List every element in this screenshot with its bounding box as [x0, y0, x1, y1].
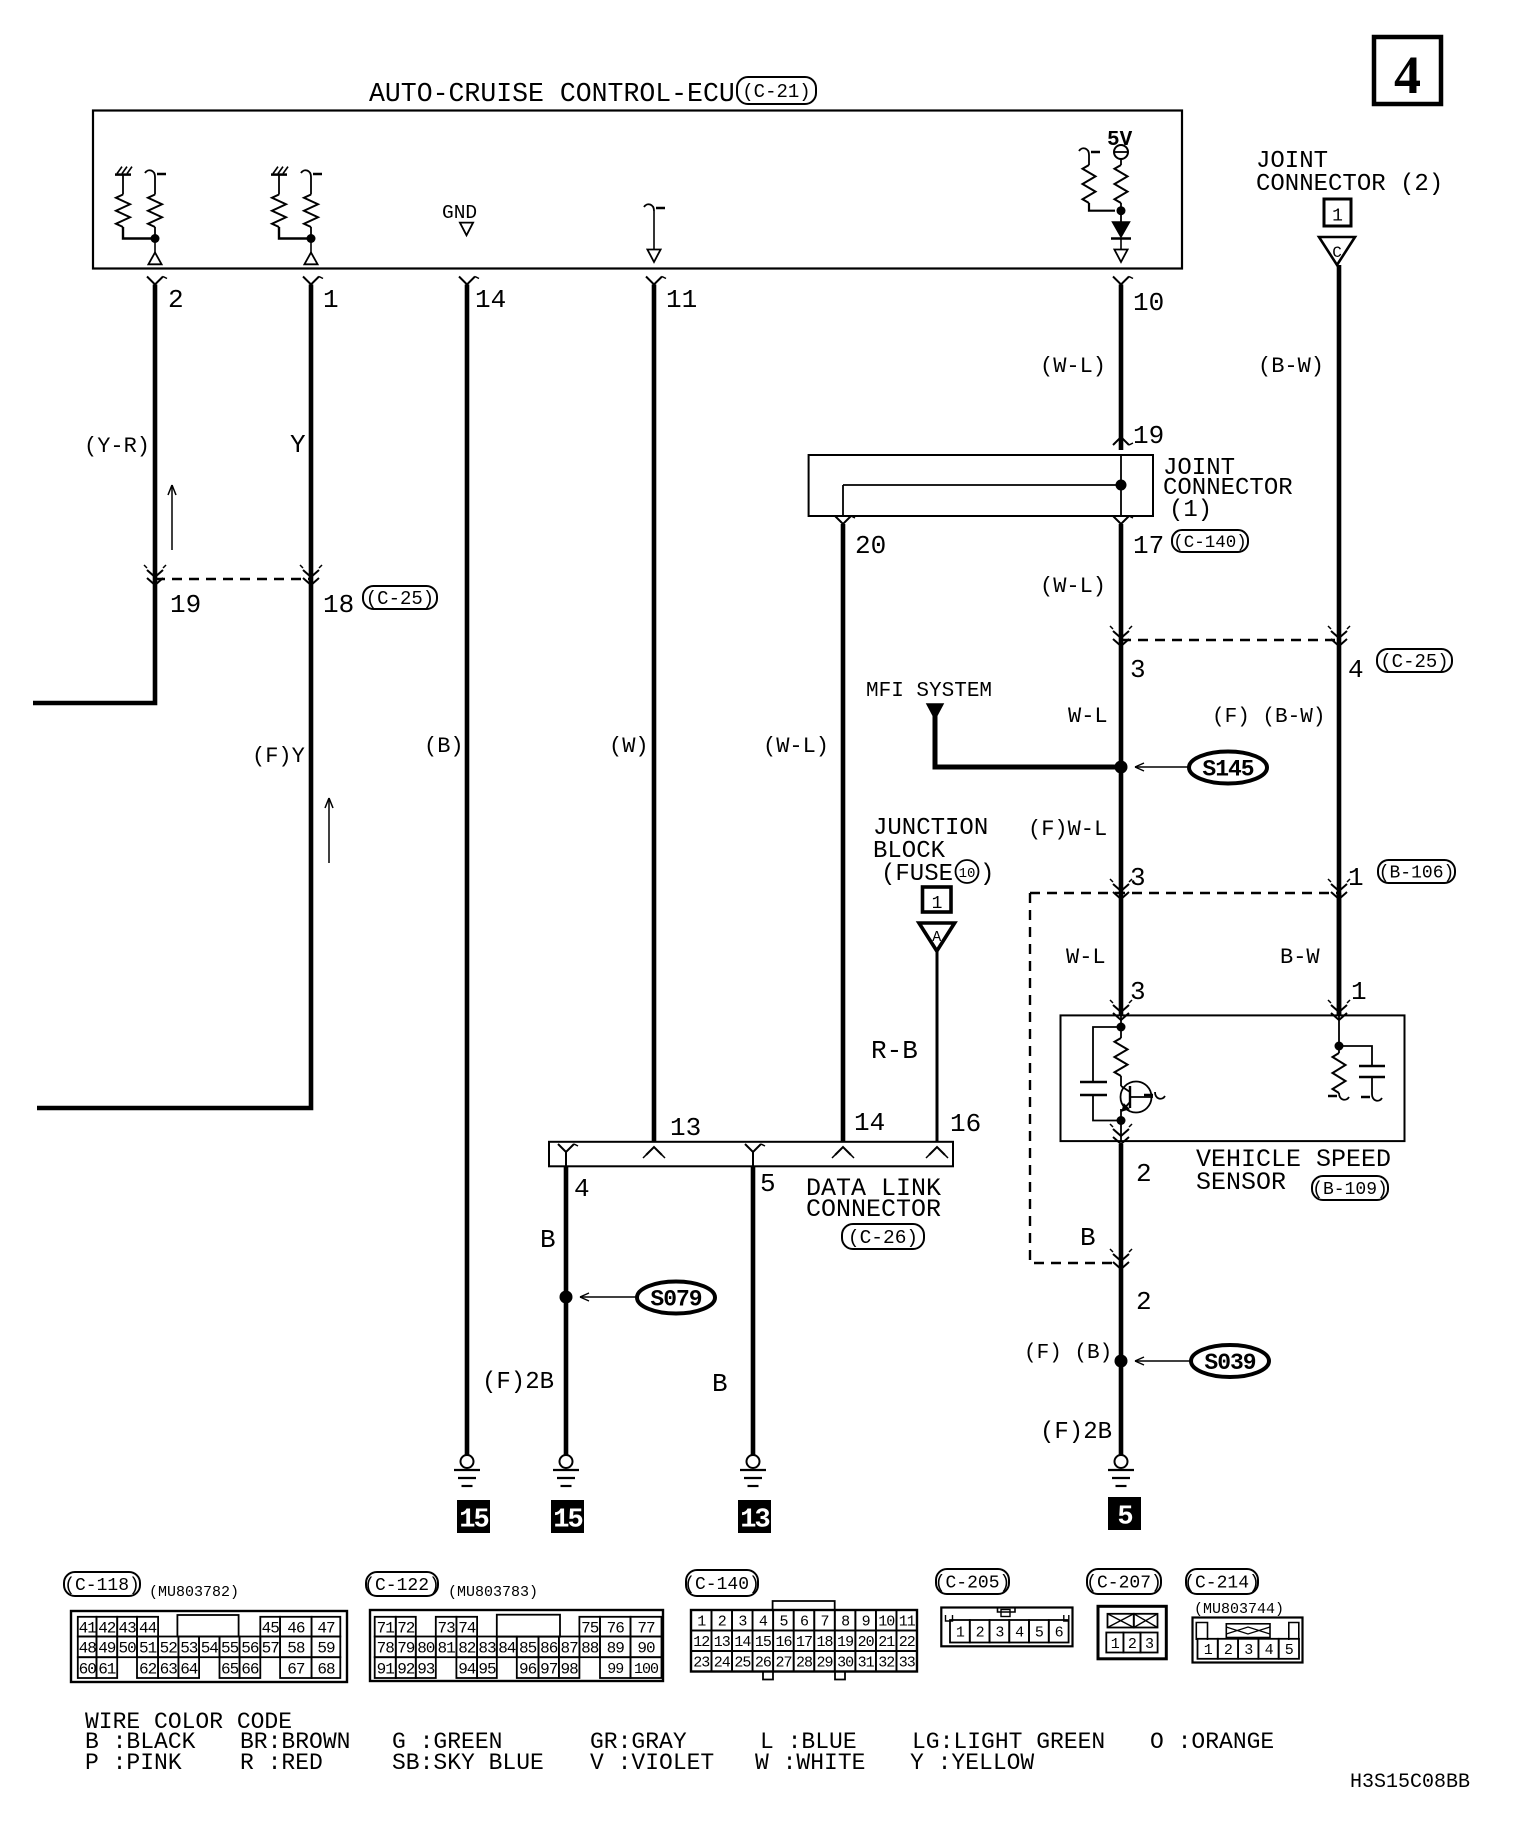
svg-text:5: 5 [1117, 1503, 1132, 1533]
svg-text:67: 67 [287, 1660, 305, 1678]
ground page ref 15 [457, 1500, 490, 1533]
resistor internal on pin x=155 [154, 177, 156, 195]
svg-text:1: 1 [1204, 1642, 1213, 1659]
svg-text:(C-207): (C-207) [1086, 1574, 1162, 1594]
ground symbol DLC pin 4 [560, 1455, 573, 1468]
pin 1 fork below ECU [303, 277, 319, 285]
svg-text:(MU803782): (MU803782) [149, 1584, 239, 1601]
svg-text:14: 14 [475, 285, 506, 315]
resistor internal left of pin (x=279) [278, 175, 280, 195]
continuation hook left resistor pin 10 [1079, 148, 1089, 155]
svg-text:21: 21 [878, 1634, 895, 1651]
svg-text:4: 4 [574, 1174, 590, 1204]
svg-text:(W-L): (W-L) [1040, 574, 1106, 599]
svg-text:18: 18 [816, 1634, 833, 1651]
junction dot VSS bottom [1117, 1116, 1126, 1125]
wire 17 (W-L) continues down [1119, 524, 1124, 1015]
svg-text:30: 30 [837, 1655, 854, 1672]
svg-text:(F)2B: (F)2B [1040, 1419, 1112, 1446]
svg-text:(F)W-L: (F)W-L [1028, 817, 1107, 842]
svg-text:(C-25): (C-25) [1380, 651, 1448, 673]
continuation hook at top of resistor x=155 [145, 170, 155, 177]
svg-text:63: 63 [160, 1660, 178, 1678]
svg-text:49: 49 [98, 1640, 116, 1658]
connector table C-207 [1098, 1606, 1166, 1659]
pin 10 fork below ECU [1113, 277, 1129, 285]
ECU box C-21 outline [93, 111, 1182, 269]
ground symbol DLC pin 5 [747, 1455, 760, 1468]
connector table C-205 [941, 1608, 1072, 1647]
svg-text:27: 27 [775, 1655, 791, 1672]
inline connector marks B-106 pin 2 on VSS wire [1113, 1254, 1129, 1261]
svg-text:77: 77 [637, 1619, 655, 1637]
continuation hook at top of resistor x=311 [301, 170, 311, 177]
male pin 14 mark in data link connector [835, 1147, 851, 1155]
svg-text:93: 93 [417, 1660, 435, 1678]
svg-text:4: 4 [759, 1614, 768, 1631]
svg-text:48: 48 [79, 1640, 97, 1658]
svg-text:(W): (W) [609, 734, 649, 759]
junction dot [307, 234, 316, 243]
connector label B-109 [1312, 1176, 1388, 1200]
svg-text:(F)2B: (F)2B [482, 1369, 554, 1396]
svg-text:75: 75 [581, 1619, 599, 1637]
svg-text:10: 10 [878, 1614, 895, 1631]
svg-text:46: 46 [287, 1619, 305, 1637]
fork at joint connector pin 19 [1113, 437, 1129, 445]
svg-text:W :WHITE: W :WHITE [755, 1750, 865, 1776]
svg-text:H3S15C08BB: H3S15C08BB [1350, 1771, 1470, 1794]
ECU internal lead at pin 11 [644, 204, 654, 211]
VEHICLE SPEED SENSOR box B-109 [1061, 1015, 1405, 1141]
svg-text:1: 1 [1111, 1636, 1120, 1653]
svg-text:V :VIOLET: V :VIOLET [590, 1750, 714, 1776]
svg-text:20: 20 [858, 1634, 875, 1651]
svg-text:32: 32 [878, 1655, 894, 1672]
svg-text:13: 13 [740, 1506, 769, 1536]
wire (B-W) from joint connector 2 [1337, 265, 1342, 1015]
male pin 13 mark in data link connector [646, 1147, 662, 1155]
svg-text:3: 3 [1130, 977, 1146, 1007]
connector label C-122 [366, 1572, 438, 1596]
joint connector 2 triangle C [1319, 237, 1355, 265]
svg-text:100: 100 [634, 1661, 659, 1678]
svg-text:(B-109): (B-109) [1312, 1180, 1388, 1200]
svg-text:18: 18 [323, 590, 354, 620]
svg-text:90: 90 [637, 1640, 655, 1658]
resistor R1 in VSS [1115, 1038, 1128, 1076]
ground symbol wire 14 [461, 1455, 474, 1468]
svg-text:80: 80 [417, 1640, 435, 1658]
male pin 16 mark in data link connector [929, 1147, 945, 1155]
resistor internal on pin x=311 [310, 177, 312, 195]
svg-text:CONNECTOR: CONNECTOR [806, 1195, 941, 1224]
svg-text:76: 76 [607, 1619, 625, 1637]
svg-text:94: 94 [458, 1660, 476, 1678]
wire pin2 (Y-R) down then left [33, 285, 155, 704]
inline connector marks at VSS pin 3 [1113, 1005, 1129, 1012]
svg-text:33: 33 [899, 1655, 916, 1672]
svg-text:19: 19 [837, 1634, 853, 1651]
svg-text:6: 6 [800, 1614, 809, 1631]
5V supply symbol [1114, 145, 1128, 159]
splice S039 junction dot [1115, 1355, 1128, 1368]
wire pin10 (W-L) to joint connector 1 [1119, 285, 1124, 451]
junction block terminal box 1 [923, 887, 952, 912]
svg-text:2: 2 [1128, 1636, 1136, 1653]
svg-text:AUTO-CRUISE CONTROL-ECU: AUTO-CRUISE CONTROL-ECU [369, 79, 735, 109]
DATA LINK CONNECTOR box C-26 [549, 1142, 953, 1167]
svg-text:66: 66 [241, 1660, 259, 1678]
inline connector marks at VSS pin 1 [1331, 1005, 1347, 1012]
svg-text:MFI SYSTEM: MFI SYSTEM [866, 680, 992, 703]
svg-text:11: 11 [899, 1614, 916, 1631]
svg-text:(F) (B-W): (F) (B-W) [1212, 706, 1325, 729]
svg-text:17: 17 [1133, 531, 1164, 561]
svg-text:(MU803783): (MU803783) [448, 1584, 538, 1601]
svg-text:(F)Y: (F)Y [252, 744, 305, 769]
svg-text:4: 4 [1394, 45, 1421, 105]
svg-text:16: 16 [950, 1109, 981, 1139]
svg-text:2: 2 [976, 1625, 984, 1642]
junction dot in joint connector 1 [1116, 480, 1127, 491]
MFI SYSTEM feed triangle [927, 704, 943, 719]
svg-text:15: 15 [459, 1506, 488, 1536]
junction dot VSS right [1335, 1042, 1344, 1051]
svg-text:3: 3 [1244, 1642, 1253, 1659]
svg-text:(C-140): (C-140) [1173, 533, 1247, 553]
svg-text:1: 1 [1332, 207, 1343, 227]
svg-text:(B): (B) [424, 734, 464, 759]
svg-text:12: 12 [693, 1634, 709, 1651]
wire B from DLC pin 5 to ground [751, 1166, 756, 1455]
ground page ref 15 [551, 1500, 584, 1533]
svg-text:SB:SKY BLUE: SB:SKY BLUE [392, 1750, 544, 1776]
svg-text:4: 4 [1015, 1625, 1024, 1642]
transistor Q1 open collector in VSS [1121, 1082, 1152, 1113]
svg-text:10: 10 [1133, 288, 1164, 318]
svg-text:51: 51 [139, 1640, 157, 1658]
svg-text:2: 2 [1136, 1287, 1152, 1317]
resistor internal left of pin (x=123) [122, 175, 124, 195]
svg-text:89: 89 [607, 1640, 625, 1658]
svg-text:(W-L): (W-L) [763, 734, 829, 759]
svg-text:83: 83 [478, 1640, 496, 1658]
svg-text:82: 82 [458, 1640, 476, 1658]
svg-text:B: B [540, 1225, 556, 1255]
svg-text:B: B [712, 1369, 728, 1399]
splice S145 junction dot [1115, 761, 1128, 774]
svg-text:71: 71 [377, 1619, 395, 1637]
svg-text:P :PINK: P :PINK [85, 1750, 182, 1776]
svg-text:43: 43 [118, 1619, 136, 1637]
svg-text:(C-25): (C-25) [366, 588, 434, 610]
wire from MFI system to S145 [935, 712, 1116, 767]
connector label C-118 [64, 1572, 140, 1596]
capacitor C1 in VSS [1093, 1027, 1121, 1082]
svg-text:74: 74 [458, 1619, 476, 1637]
wire B-W to vehicle speed sensor [1337, 893, 1342, 1015]
svg-text:Y: Y [290, 430, 306, 460]
dashed connector line B-106 [1030, 892, 1339, 894]
svg-text:W-L: W-L [1068, 704, 1108, 729]
dashed connector line C-25 left [155, 578, 311, 580]
svg-text:(C-118): (C-118) [64, 1576, 140, 1596]
svg-text:28: 28 [796, 1655, 813, 1672]
svg-text:CONNECTOR (2): CONNECTOR (2) [1256, 171, 1443, 198]
VSS internal wire pin 1 [1338, 1015, 1340, 1053]
svg-text:25: 25 [734, 1655, 751, 1672]
GND pin triangle [460, 223, 473, 236]
svg-text:78: 78 [377, 1640, 395, 1658]
connector label C-25 [363, 586, 437, 609]
svg-text:3: 3 [738, 1614, 747, 1631]
svg-text:61: 61 [98, 1660, 116, 1678]
svg-text:5: 5 [1035, 1625, 1044, 1642]
svg-text:17: 17 [796, 1634, 812, 1651]
svg-text:59: 59 [317, 1640, 335, 1658]
svg-text:92: 92 [397, 1660, 415, 1678]
wire pin1 Y down then left [37, 285, 311, 1109]
svg-text:(W-L): (W-L) [1040, 354, 1106, 379]
connector label C-214 [1186, 1569, 1258, 1594]
junction dot pin 10 [1117, 206, 1126, 215]
svg-text:86: 86 [540, 1640, 558, 1658]
svg-text:57: 57 [262, 1640, 280, 1658]
svg-text:8: 8 [841, 1614, 850, 1631]
svg-text:14: 14 [734, 1634, 751, 1651]
svg-text:1: 1 [932, 894, 943, 914]
pin triangle [154, 239, 156, 253]
chassis hatch above resistor at x=123 [115, 173, 131, 176]
splice S079 junction dot [560, 1291, 573, 1304]
ground page ref 13 [738, 1500, 771, 1533]
page number box 4 [1374, 37, 1441, 104]
svg-text:S145: S145 [1202, 757, 1253, 783]
fork pin 4 in data link connector [558, 1144, 574, 1152]
connector label C-21 [737, 77, 816, 104]
splice callout S039 [1135, 1360, 1190, 1362]
svg-text:23: 23 [693, 1655, 710, 1672]
pin 10 triangle [1114, 250, 1127, 263]
pin 2 fork below ECU [147, 277, 163, 285]
svg-text:6: 6 [1055, 1625, 1064, 1642]
svg-text:R-B: R-B [871, 1036, 918, 1066]
svg-text:19: 19 [170, 590, 201, 620]
svg-text:99: 99 [607, 1661, 623, 1678]
svg-text:60: 60 [79, 1660, 97, 1678]
svg-text:1: 1 [1351, 977, 1367, 1007]
svg-text:(C-214): (C-214) [1184, 1574, 1260, 1594]
direction arrow on wire 1 [328, 798, 330, 863]
svg-text:31: 31 [858, 1655, 875, 1672]
connector table C-118 [71, 1611, 347, 1682]
svg-text:B-W: B-W [1280, 945, 1320, 970]
svg-text:9: 9 [862, 1614, 870, 1631]
svg-text:20: 20 [855, 531, 886, 561]
svg-text:19: 19 [1133, 421, 1164, 451]
svg-text:(F) (B): (F) (B) [1024, 1342, 1112, 1365]
svg-text:81: 81 [437, 1640, 455, 1658]
svg-text:(C-140): (C-140) [684, 1575, 760, 1595]
svg-text:55: 55 [221, 1640, 239, 1658]
VSS internal wire pin 3 [1120, 1015, 1122, 1038]
svg-text:84: 84 [498, 1640, 516, 1658]
joint connector 1 internal bus [843, 484, 1116, 486]
svg-text:3: 3 [1130, 863, 1146, 893]
direction arrow on wire 2 [171, 485, 173, 550]
svg-text:4: 4 [1348, 655, 1364, 685]
svg-text:1: 1 [323, 285, 339, 315]
svg-text:A: A [932, 929, 941, 946]
junction block triangle A [919, 923, 955, 951]
splice callout S079 [580, 1296, 637, 1298]
pin triangle [310, 239, 312, 253]
svg-text:85: 85 [519, 1640, 537, 1658]
svg-text:(C-21): (C-21) [742, 81, 810, 103]
ground page ref 5 [1108, 1497, 1141, 1530]
wire pin14 (B) to ground [465, 285, 470, 1456]
junction dot VSS left [1117, 1023, 1126, 1032]
svg-text:5: 5 [779, 1614, 788, 1631]
svg-text:87: 87 [560, 1640, 578, 1658]
svg-text:(C-26): (C-26) [848, 1227, 918, 1249]
fork pin 5 in data link connector [745, 1144, 761, 1152]
svg-text:45: 45 [262, 1619, 280, 1637]
svg-text:1: 1 [1348, 863, 1364, 893]
resistor internal on pin 10 from 5V [1120, 159, 1122, 165]
svg-text:91: 91 [377, 1660, 395, 1678]
svg-text:2: 2 [1224, 1642, 1232, 1659]
joint connector 2 terminal box 1 [1324, 199, 1351, 226]
svg-text:98: 98 [560, 1660, 578, 1678]
wire B from DLC pin 4 to ground [564, 1166, 569, 1455]
svg-text:73: 73 [437, 1619, 455, 1637]
svg-text:3: 3 [1130, 655, 1146, 685]
svg-text:R :RED: R :RED [240, 1750, 323, 1776]
splice callout S145 [1135, 766, 1189, 768]
svg-text:SENSOR: SENSOR [1196, 1168, 1286, 1197]
svg-text:7: 7 [820, 1614, 828, 1631]
wire pin11 (W) to data link connector [652, 285, 657, 1142]
connector label C-140 [686, 1570, 758, 1596]
svg-text:5V: 5V [1107, 129, 1133, 152]
inline connector marks B-106 pin 1 [1331, 884, 1347, 891]
svg-text:52: 52 [160, 1640, 178, 1658]
svg-text:15: 15 [553, 1506, 582, 1536]
svg-text:29: 29 [816, 1655, 832, 1672]
svg-text:S079: S079 [650, 1287, 701, 1313]
C-140 top tab [773, 1601, 835, 1610]
svg-text:O :ORANGE: O :ORANGE [1150, 1729, 1274, 1755]
svg-text:1: 1 [956, 1625, 965, 1642]
pin 11 fork below ECU [646, 277, 662, 285]
fuse 10 circled [956, 860, 979, 883]
svg-text:3: 3 [995, 1625, 1004, 1642]
svg-text:3: 3 [1145, 1636, 1154, 1653]
svg-text:72: 72 [397, 1619, 415, 1637]
wire B from VSS pin 2 [1119, 1144, 1124, 1455]
inline connector marks at VSS pin 2 bottom [1113, 1129, 1129, 1136]
svg-text:5: 5 [760, 1169, 776, 1199]
svg-text:(MU803744): (MU803744) [1194, 1601, 1284, 1618]
svg-text:96: 96 [519, 1660, 537, 1678]
svg-text:(C-122): (C-122) [364, 1576, 440, 1596]
svg-text:58: 58 [287, 1640, 305, 1658]
svg-text:(Y-R): (Y-R) [84, 434, 150, 459]
svg-text:2: 2 [718, 1614, 726, 1631]
svg-text:(1): (1) [1169, 497, 1212, 524]
C-140 bottom tabs [763, 1672, 773, 1680]
connector label C-26 [842, 1224, 924, 1249]
svg-text:16: 16 [775, 1634, 792, 1651]
svg-text:W-L: W-L [1066, 945, 1106, 970]
svg-text:13: 13 [670, 1113, 701, 1143]
svg-text:10: 10 [959, 866, 976, 882]
svg-text:(C-205): (C-205) [935, 1574, 1011, 1594]
svg-text:64: 64 [180, 1660, 198, 1678]
svg-text:(B-106): (B-106) [1379, 864, 1455, 884]
svg-text:13: 13 [714, 1634, 731, 1651]
connector label C-205 [936, 1569, 1009, 1594]
svg-text:14: 14 [854, 1108, 885, 1138]
svg-text:5: 5 [1285, 1642, 1294, 1659]
svg-text:Y :YELLOW: Y :YELLOW [910, 1750, 1034, 1776]
junction dot [151, 234, 160, 243]
svg-text:11: 11 [666, 285, 697, 315]
svg-text:42: 42 [98, 1619, 116, 1637]
JOINT CONNECTOR (1) box [809, 455, 1153, 516]
pin 14 fork below ECU [459, 277, 475, 285]
svg-text:GND: GND [442, 202, 477, 224]
svg-text:(FUSE: (FUSE [881, 861, 953, 888]
connector table C-122 [370, 1610, 663, 1681]
svg-text:68: 68 [317, 1660, 335, 1678]
svg-text:47: 47 [317, 1619, 335, 1637]
svg-text:(B-W): (B-W) [1258, 354, 1324, 379]
svg-text:): ) [980, 861, 994, 888]
svg-text:2: 2 [168, 285, 184, 315]
diode D1 to pin 10 [1120, 211, 1122, 222]
connector table C-214 [1193, 1618, 1303, 1663]
svg-text:65: 65 [221, 1660, 239, 1678]
connector label B-106 [1378, 860, 1455, 883]
svg-text:53: 53 [180, 1640, 198, 1658]
dashed connector line C-25 right [1121, 639, 1339, 641]
svg-text:C: C [1332, 244, 1342, 262]
svg-text:24: 24 [714, 1655, 731, 1672]
svg-text:62: 62 [139, 1660, 157, 1678]
inline connector marks C-25 pin 3 [1113, 631, 1129, 638]
svg-text:S039: S039 [1204, 1350, 1255, 1376]
svg-text:B: B [1080, 1223, 1096, 1253]
svg-text:2: 2 [1136, 1159, 1152, 1189]
svg-text:4: 4 [1265, 1642, 1274, 1659]
svg-text:79: 79 [397, 1640, 415, 1658]
inline connector marks C-25 pin 4 [1331, 631, 1347, 638]
inline connector marks C-25 pin 18 on wire 1 [303, 570, 319, 577]
inline connector marks C-25 pin 19 on wire 2 [147, 570, 163, 577]
svg-text:15: 15 [755, 1634, 772, 1651]
wire 20 (W-L) to data link connector pin 14 [841, 524, 846, 1142]
svg-text:56: 56 [241, 1640, 259, 1658]
resistor R2 in VSS [1333, 1053, 1346, 1093]
connector label C-207 [1087, 1569, 1161, 1594]
chassis hatch above resistor at x=279 [271, 173, 287, 176]
svg-text:54: 54 [201, 1640, 219, 1658]
fork at joint connector 1 pin 17 [1113, 516, 1129, 524]
wire R-B from junction block to data link connector pin 16 [936, 951, 939, 1142]
